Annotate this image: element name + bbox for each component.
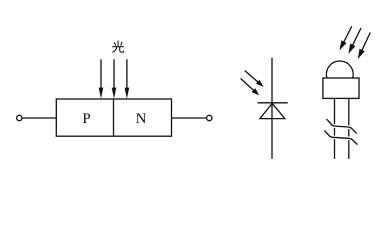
svg-text:N: N <box>136 111 147 127</box>
svg-text:P: P <box>82 111 90 127</box>
